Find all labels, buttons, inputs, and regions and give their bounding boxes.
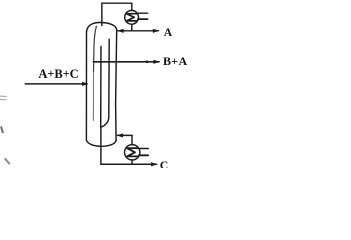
wire reboiler heating nozzle upper xyxy=(139,148,148,150)
node inner wall line (gray) xyxy=(94,26,97,72)
condenser E-1 xyxy=(125,10,139,24)
label B+A (side product) xyxy=(163,54,187,69)
wire condenser coolant nozzle lower xyxy=(138,18,148,20)
wire condenser outlet drop xyxy=(131,24,133,31)
node inner tube left line xyxy=(100,47,102,128)
arrow bottoms product C xyxy=(151,162,158,166)
arrow vapor into column xyxy=(116,133,123,137)
column C-1 shell xyxy=(86,22,116,146)
wire side-draw line xyxy=(93,61,159,63)
reboiler E-2 xyxy=(125,145,140,160)
arrow feed into column xyxy=(82,82,89,86)
wire bottoms downcomer from column xyxy=(100,127,102,164)
scan smudge left margin upper xyxy=(0,96,6,100)
condenser E-1 coil xyxy=(127,14,137,21)
scan smudge bottom left xyxy=(5,159,9,164)
wire top dome xyxy=(87,22,117,31)
label A (distillate) xyxy=(164,26,172,39)
wire condenser coolant nozzle upper xyxy=(138,12,148,14)
node inner tube right line xyxy=(102,39,110,127)
wire reboiler vapor return xyxy=(117,134,132,136)
label A+B+C (feed) xyxy=(38,67,78,82)
arrow distillate A xyxy=(153,29,160,33)
wire right wall xyxy=(116,30,117,141)
wire left wall xyxy=(85,32,87,141)
arrow reflux into column xyxy=(117,29,124,33)
wire distillate / reflux header xyxy=(118,30,159,32)
wire bottom dome xyxy=(86,140,116,146)
node junction dot on side-draw xyxy=(145,61,148,64)
node inner wall line lower (faded) xyxy=(92,72,94,121)
arrow side product B+A xyxy=(153,60,160,64)
wire reboiler drop to bottoms line xyxy=(131,160,133,164)
wire reboiler heating nozzle lower xyxy=(139,154,148,156)
reboiler E-2 coil xyxy=(127,148,138,156)
wire reboiler riser xyxy=(131,135,133,144)
wire feed line xyxy=(25,83,87,85)
scan smudge left margin lower xyxy=(1,127,3,132)
label C (bottoms) xyxy=(160,158,169,173)
wire overhead vapor riser xyxy=(102,3,132,25)
wire bottoms product line xyxy=(101,163,157,165)
